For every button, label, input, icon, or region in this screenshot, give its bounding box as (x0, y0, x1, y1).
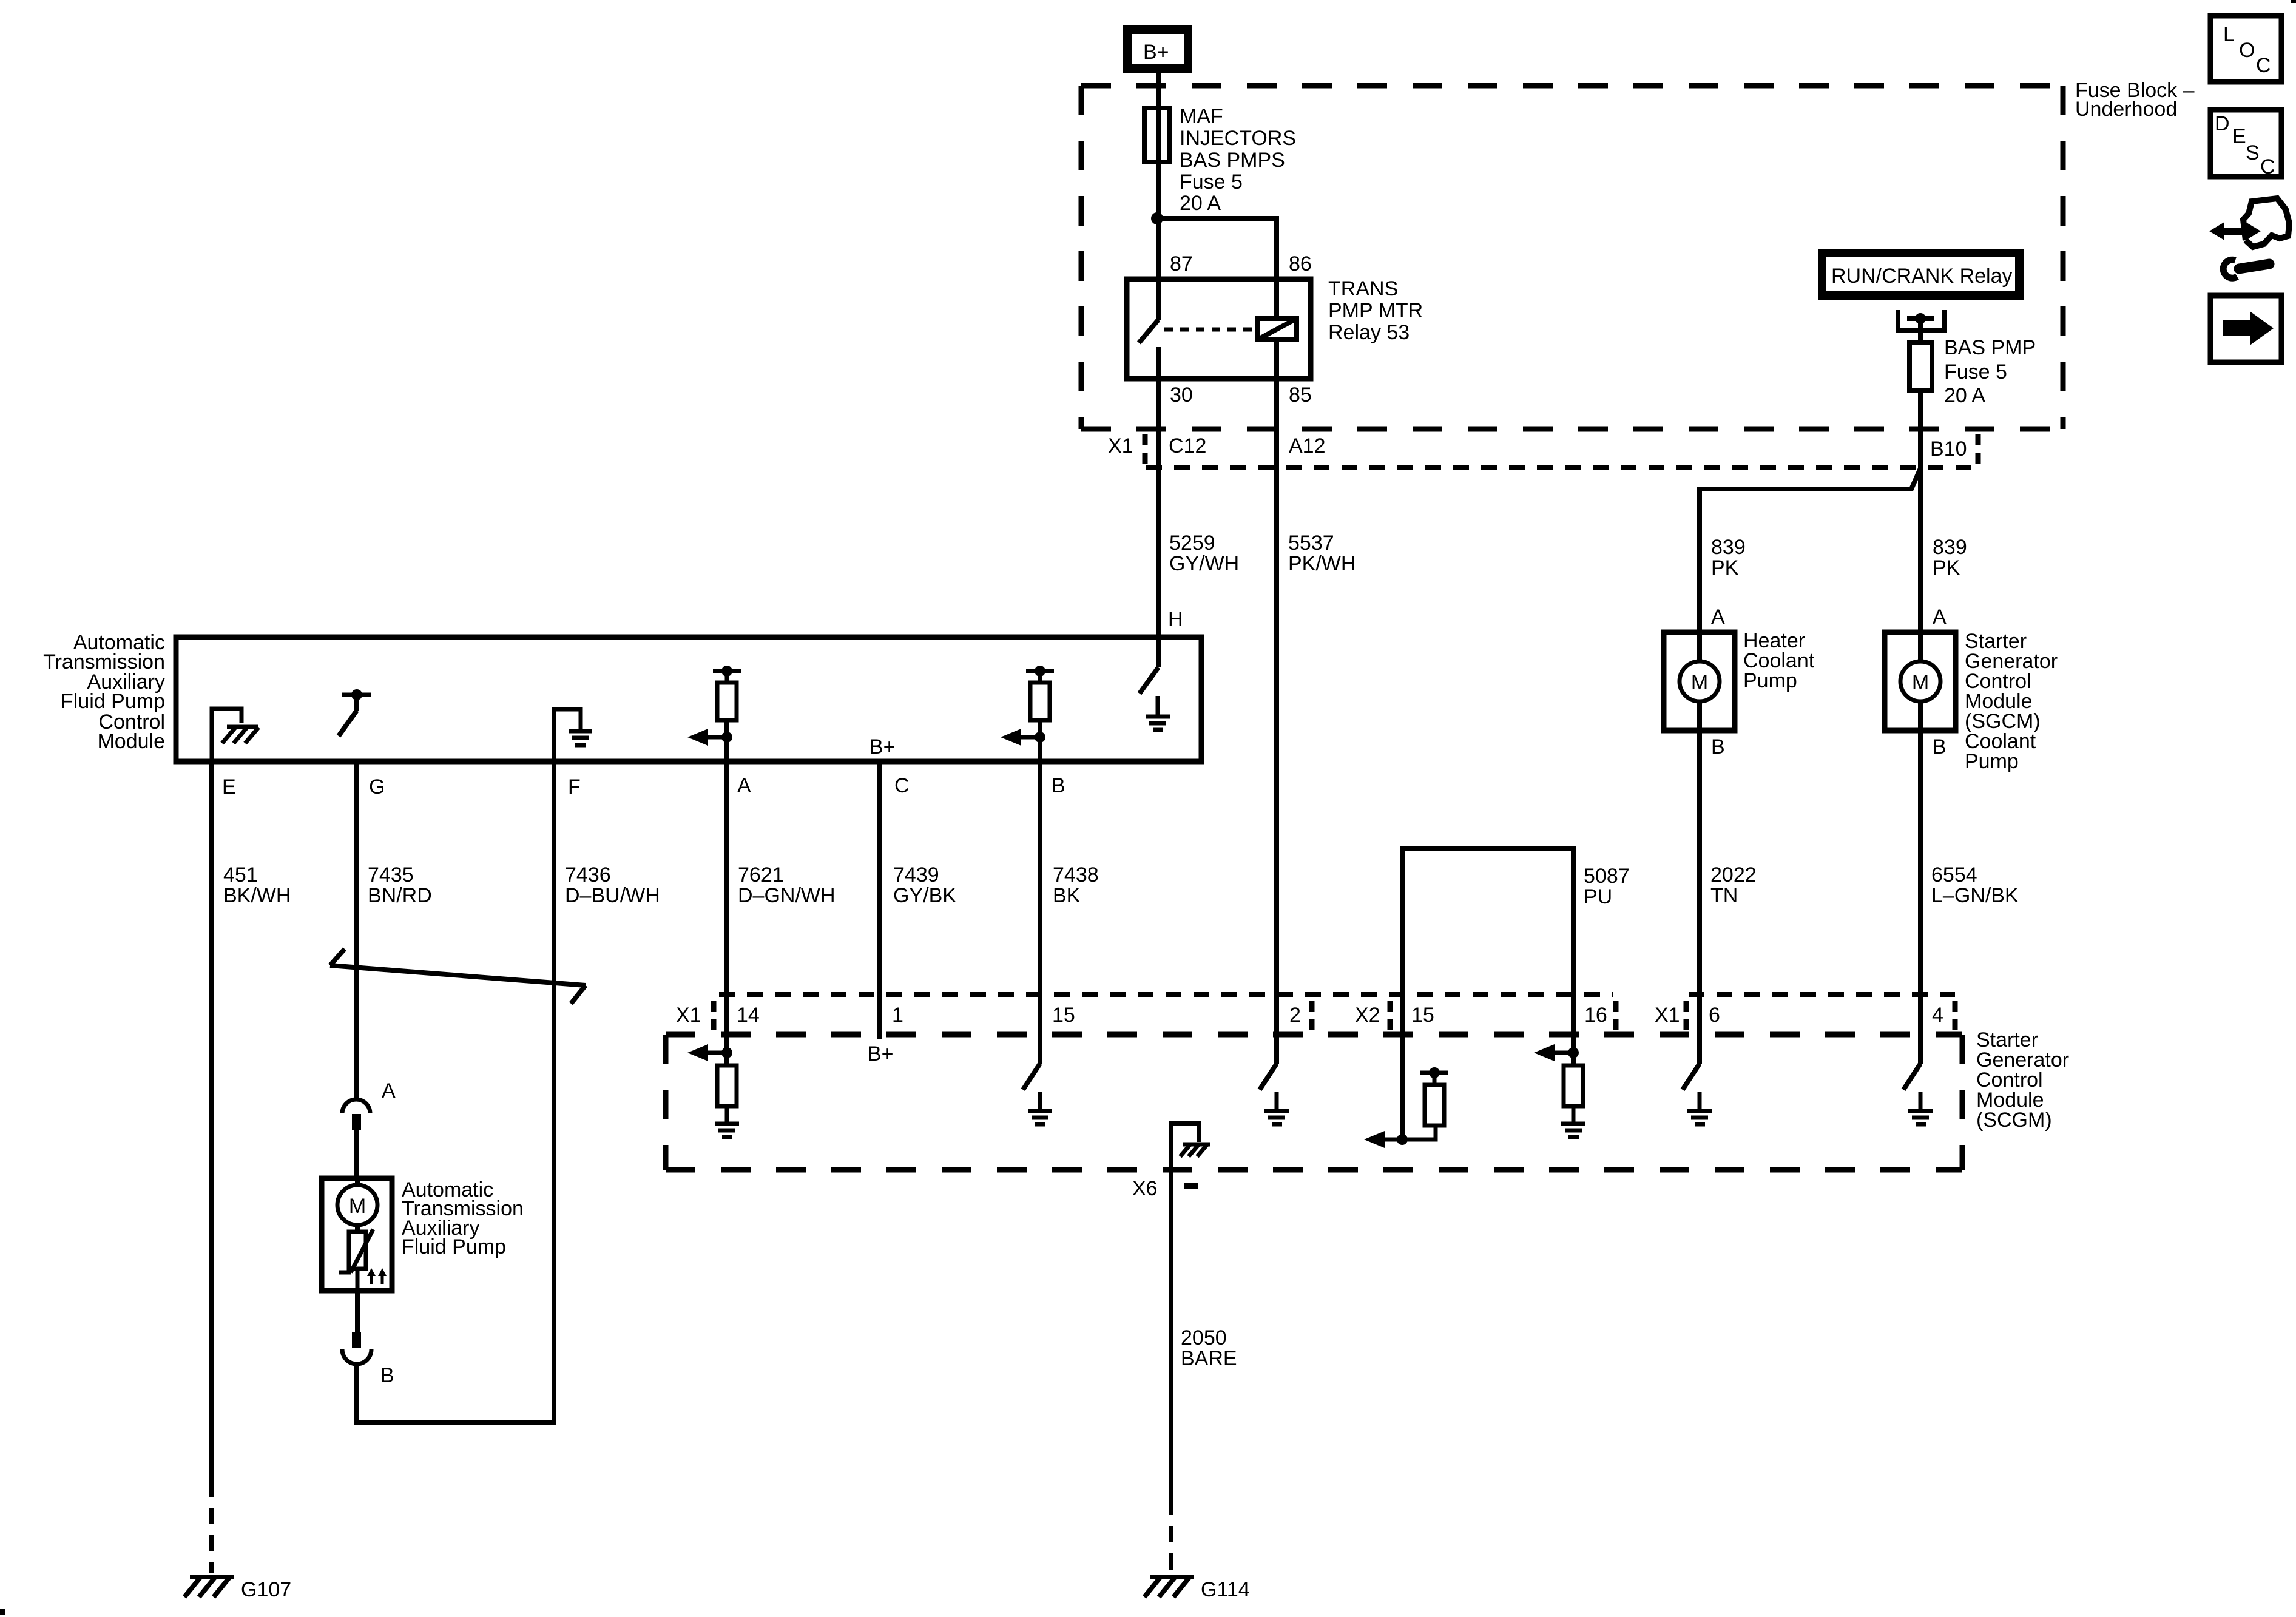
svg-text:GY/BK: GY/BK (893, 884, 956, 907)
wire 5087 PU label (1584, 865, 1630, 908)
svg-text:Relay 53: Relay 53 (1328, 321, 1410, 344)
svg-text:451: 451 (223, 863, 258, 886)
svg-text:14: 14 (737, 1004, 760, 1027)
svg-text:2022: 2022 (1710, 863, 1757, 886)
svg-text:M: M (349, 1195, 366, 1218)
switch to ground SCGM pin 6 (1683, 1064, 1712, 1124)
svg-text:G107: G107 (241, 1578, 291, 1601)
svg-text:C: C (894, 774, 910, 797)
switch to ground pin H inside module (1140, 636, 1170, 730)
wire module pin B to SCGM pin 15 (1038, 764, 1042, 1064)
module ATAFP control module box (176, 637, 1201, 761)
resistor to ground SCGM pin 16 (1534, 1044, 1585, 1137)
svg-text:85: 85 (1289, 383, 1312, 407)
svg-text:A12: A12 (1289, 434, 1326, 457)
wire heater pump B to SCGM pin 6 (1697, 731, 1702, 1064)
svg-text:PK: PK (1711, 556, 1739, 579)
wire 2022 TN label (1710, 863, 1757, 907)
svg-text:TRANS: TRANS (1328, 277, 1398, 300)
svg-text:GY/WH: GY/WH (1169, 552, 1239, 575)
svg-text:L: L (2223, 23, 2235, 46)
label SGCM Coolant Pump (1965, 630, 2058, 773)
svg-text:7621: 7621 (738, 863, 784, 886)
ground G114 chassis symbol (1144, 1577, 1194, 1597)
SCGM connector row dotted lines (719, 992, 1613, 997)
wire junction to relay pin 86 (1157, 218, 1277, 279)
wire sgcm pump B to SCGM pin 4 (1918, 731, 1923, 1064)
svg-text:16: 16 (1584, 1004, 1607, 1027)
svg-text:X2: X2 (1355, 1004, 1380, 1027)
svg-text:Module: Module (97, 730, 165, 753)
fuse MAF INJECTORS BAS PMPS Fuse 5 (1144, 108, 1170, 162)
svg-text:BN/RD: BN/RD (368, 884, 432, 907)
SCGM connector row labels (676, 1004, 1943, 1027)
wire relay pin85 down to SCGM pin 2 (1274, 379, 1279, 1064)
svg-text:L–GN/BK: L–GN/BK (1931, 884, 2019, 907)
pin label minus X6 (1184, 1183, 1198, 1189)
connector B pump (342, 1332, 371, 1364)
wire junction to relay pin 87 (1156, 218, 1161, 279)
fuse BAS PMP Fuse 5 (1909, 342, 1932, 390)
svg-text:Pump: Pump (1965, 750, 2019, 773)
svg-text:Fuse 5: Fuse 5 (1944, 360, 2007, 383)
wire dashed to G107 (209, 1480, 214, 1573)
svg-text:Underhood: Underhood (2075, 98, 2177, 121)
svg-text:2050: 2050 (1181, 1326, 1227, 1349)
svg-text:BARE: BARE (1181, 1347, 1237, 1370)
arrows up inside pump (367, 1268, 387, 1284)
svg-text:5537: 5537 (1288, 532, 1334, 555)
svg-text:7435: 7435 (368, 863, 414, 886)
svg-text:7438: 7438 (1053, 863, 1099, 886)
wire 451 BK/WH label (223, 863, 291, 907)
svg-text:O: O (2239, 39, 2255, 62)
connector X1 row labels (1108, 434, 1967, 461)
motor SGCM Coolant Pump (1885, 632, 1956, 731)
wire connector A to pump box (354, 1130, 359, 1178)
wire module pin E to G107 (209, 764, 214, 1480)
svg-text:D–BU/WH: D–BU/WH (565, 884, 660, 907)
svg-text:BAS PMPS: BAS PMPS (1180, 149, 1285, 172)
svg-text:A: A (382, 1079, 396, 1102)
connector B10 separator (1976, 434, 1981, 464)
RUN/CRANK Relay box (1822, 253, 2019, 295)
switch to ground SCGM pin 2 (1260, 1064, 1289, 1124)
svg-text:30: 30 (1170, 383, 1193, 407)
stray mark top right corner (2291, 0, 2296, 3)
stray mark bottom left corner (0, 1609, 5, 1615)
icon arrow box (2210, 295, 2281, 362)
switch pin G inside module (339, 689, 371, 736)
svg-text:B: B (1052, 774, 1065, 797)
svg-text:B+: B+ (869, 735, 896, 758)
wire 7621 D-GN/WH label (738, 863, 836, 907)
svg-text:PK/WH: PK/WH (1288, 552, 1356, 575)
svg-text:C: C (2256, 54, 2271, 77)
svg-text:1: 1 (892, 1004, 903, 1027)
resistor to ground SCGM pin 14 (687, 1044, 739, 1137)
relay coil pins 86-85 (1257, 279, 1297, 379)
svg-text:7439: 7439 (893, 863, 939, 886)
switch to ground SCGM pin 4 (1903, 1064, 1933, 1124)
relay actuation dashed link (1164, 328, 1252, 332)
svg-text:G114: G114 (1201, 1578, 1250, 1601)
wire loop X2 pin 15 to pin 16 (1402, 848, 1573, 1139)
svg-text:15: 15 (1052, 1004, 1075, 1027)
twisted leads symbol (330, 949, 586, 1004)
pin labels module bottom (222, 774, 1065, 798)
svg-text:A: A (1933, 606, 1947, 629)
relay switch blade pin 87 to 30 (1139, 279, 1158, 379)
resistor sensor pin A inside module (687, 666, 741, 761)
svg-text:X6: X6 (1132, 1177, 1158, 1200)
junction node below fuse (1151, 212, 1163, 224)
svg-text:Pump: Pump (1743, 669, 1797, 692)
svg-text:2: 2 (1289, 1004, 1301, 1027)
svg-text:X1: X1 (1108, 434, 1133, 457)
connector row dotted line (1146, 465, 1980, 470)
SCGM module dashed box (666, 1035, 1962, 1170)
wire module pin C to SCGM pin 1 (877, 764, 882, 1039)
wire X6 to G114 (1169, 1170, 1173, 1499)
svg-text:M: M (1691, 671, 1708, 694)
svg-text:RUN/CRANK Relay: RUN/CRANK Relay (1831, 265, 2013, 288)
svg-text:20 A: 20 A (1180, 192, 1221, 215)
svg-text:(SCGM): (SCGM) (1976, 1109, 2052, 1132)
connector bracket under RUN/CRANK relay (1898, 310, 1944, 331)
wire branch B10 to heater pump (1700, 468, 1920, 632)
svg-text:6: 6 (1709, 1004, 1720, 1027)
wire pump box to connector B (355, 1291, 360, 1332)
svg-text:B10: B10 (1930, 437, 1967, 461)
svg-text:X1: X1 (676, 1004, 701, 1027)
icon vehicle with arrow and wrench (2209, 198, 2289, 278)
svg-text:7436: 7436 (565, 863, 611, 886)
svg-text:TN: TN (1710, 884, 1738, 907)
svg-text:D–GN/WH: D–GN/WH (738, 884, 836, 907)
svg-text:BAS PMP: BAS PMP (1944, 336, 2036, 359)
svg-text:PK: PK (1933, 556, 1960, 579)
SCGM connector separators (714, 1001, 1955, 1030)
svg-text:87: 87 (1170, 252, 1193, 275)
svg-text:C: C (2260, 155, 2275, 178)
label fuse 5 MAF (1180, 105, 1296, 215)
svg-text:15: 15 (1411, 1004, 1434, 1027)
svg-text:839: 839 (1933, 536, 1967, 559)
svg-text:S: S (2246, 141, 2260, 164)
svg-text:G: G (369, 775, 385, 798)
connector A pump (342, 1099, 370, 1130)
wire 7435 BN/RD label (368, 863, 432, 907)
power symbol B+ battery feed box (1127, 30, 1188, 69)
svg-text:B: B (380, 1364, 394, 1387)
svg-text:86: 86 (1289, 252, 1312, 275)
svg-text:H: H (1168, 608, 1183, 631)
svg-text:5259: 5259 (1169, 532, 1215, 555)
terminal bar and node (1907, 316, 1934, 321)
label relay name (1328, 277, 1423, 344)
wire 5259 GY/WH label (1169, 532, 1239, 575)
icon DESC box (2210, 110, 2281, 178)
wire dashed to G114 (1169, 1499, 1173, 1573)
wire 7438 BK label (1053, 863, 1099, 907)
ground symbol pin F inside module (554, 709, 592, 761)
svg-text:5087: 5087 (1584, 865, 1630, 888)
svg-text:MAF: MAF (1180, 105, 1223, 128)
svg-text:Fuse 5: Fuse 5 (1180, 170, 1243, 194)
svg-text:Fluid Pump: Fluid Pump (61, 690, 165, 713)
svg-text:B: B (1711, 735, 1725, 758)
wire module pin G to pump connector A (354, 764, 359, 1099)
svg-text:F: F (568, 775, 581, 798)
wire module pin F to loop (552, 764, 556, 1422)
icon LOC box (2210, 16, 2281, 82)
label BAS PMP fuse (1944, 336, 2036, 407)
svg-text:B+: B+ (868, 1042, 894, 1065)
wire 839 PK labels (1711, 536, 1967, 579)
switch to ground SCGM pin 15 (1023, 1064, 1052, 1124)
wire BAS PMP fuse through B10 (1918, 390, 1923, 632)
svg-text:B: B (1933, 735, 1947, 758)
wire 2050 BARE label (1181, 1326, 1237, 1370)
svg-text:Fluid Pump: Fluid Pump (402, 1235, 506, 1258)
svg-text:E: E (2232, 125, 2246, 148)
svg-text:X1: X1 (1655, 1004, 1680, 1027)
wire 7436 D-BU/WH label (565, 863, 660, 907)
svg-text:B+: B+ (1143, 41, 1169, 64)
svg-text:E: E (222, 775, 236, 798)
ground chassis symbol X6 inside SCGM (1171, 1124, 1210, 1170)
label Heater Coolant Pump (1743, 629, 1815, 692)
wire module pin A to SCGM pin 14 (724, 764, 729, 1053)
svg-text:4: 4 (1932, 1004, 1943, 1027)
wire 7439 GY/BK label (893, 863, 956, 907)
svg-text:839: 839 (1711, 536, 1746, 559)
resistor network SCGM X2 pin 15 (1364, 1067, 1448, 1148)
wire 5537 PK/WH label (1288, 532, 1356, 575)
wire relay to BAS PMP fuse (1918, 319, 1923, 342)
svg-text:BK/WH: BK/WH (223, 884, 291, 907)
svg-text:D: D (2215, 112, 2230, 135)
svg-text:INJECTORS: INJECTORS (1180, 127, 1296, 150)
wire 6554 L-GN/BK label (1931, 863, 2019, 907)
svg-text:PMP MTR: PMP MTR (1328, 299, 1423, 322)
motor Automatic Transmission Auxiliary Fluid Pump (322, 1178, 392, 1291)
wire relay pin30 down to module pin H (1156, 379, 1161, 636)
svg-text:C12: C12 (1169, 434, 1206, 457)
label Automatic Transmission Auxiliary Fluid Pump (402, 1178, 524, 1258)
resistor sensor pin B inside module (1001, 666, 1054, 761)
svg-text:BK: BK (1053, 884, 1081, 907)
relay TRANS PMP MTR Relay 53 box (1127, 279, 1311, 379)
svg-text:20 A: 20 A (1944, 384, 1985, 407)
ground G107 chassis symbol (184, 1577, 234, 1597)
connector X1 separator (1143, 434, 1148, 464)
svg-text:A: A (737, 774, 751, 797)
svg-text:M: M (1912, 671, 1929, 694)
svg-text:PU: PU (1584, 885, 1612, 908)
label Fuse Block Underhood (2075, 79, 2195, 121)
svg-text:A: A (1711, 606, 1725, 629)
fuse block underhood dashed box (1081, 86, 2063, 429)
ground chassis symbol pin E inside module (212, 709, 258, 761)
thermistor inside pump (339, 1229, 373, 1291)
wire B+ to fuse (1156, 69, 1161, 218)
svg-text:6554: 6554 (1931, 863, 1977, 886)
wire pump B loop back to pin F (357, 1363, 556, 1422)
motor Heater Coolant Pump (1664, 632, 1735, 731)
label SCGM (1976, 1028, 2069, 1132)
label Automatic Transmission Auxiliary Fluid Pump Control Module (43, 631, 165, 753)
